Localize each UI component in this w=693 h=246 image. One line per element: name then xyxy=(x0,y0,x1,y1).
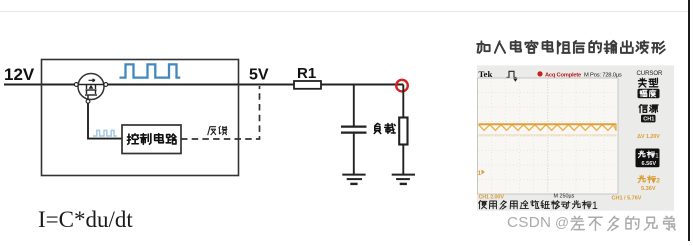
svg-text:CH1: CH1 xyxy=(643,117,654,123)
PWM square waveform (blue) xyxy=(120,64,181,77)
svg-text:M 250µs: M 250µs xyxy=(554,194,575,200)
Q1 source terminal node xyxy=(104,83,108,87)
ground (load) xyxy=(392,175,415,184)
menu item: source xyxy=(639,104,658,112)
oscilloscope screenshot background xyxy=(477,65,674,210)
svg-text:Acq Complete: Acq Complete xyxy=(545,72,582,78)
svg-text:1: 1 xyxy=(478,170,482,177)
scope brand Tek xyxy=(479,69,493,79)
CURSOR menu title xyxy=(637,70,664,77)
cursor1 button xyxy=(636,149,660,168)
Q1 drain terminal node xyxy=(74,83,78,87)
svg-text:ΔV 1.20V: ΔV 1.20V xyxy=(637,134,660,140)
wire C1 to ground xyxy=(353,134,355,174)
acq complete text xyxy=(545,72,582,78)
label 12V input xyxy=(4,65,35,84)
label feedback (fankui) xyxy=(208,126,227,134)
acq red dot xyxy=(537,71,542,76)
capacitor C1 xyxy=(341,127,367,133)
delta V readout xyxy=(637,134,660,140)
svg-text:5.36V: 5.36V xyxy=(641,186,656,192)
CH1 scale readout xyxy=(479,195,505,201)
CSDN watermark xyxy=(507,214,675,231)
wire probe to load xyxy=(402,85,404,118)
svg-text:@: @ xyxy=(555,215,569,230)
channel 1 marker xyxy=(478,170,485,178)
timebase readout xyxy=(554,194,575,200)
trigger position marker xyxy=(513,79,517,82)
wire load to ground xyxy=(402,145,404,175)
svg-text:M Pos: 728.0µs: M Pos: 728.0µs xyxy=(584,72,622,78)
top hairline xyxy=(0,11,688,13)
load resistor body xyxy=(399,118,407,145)
cursor2 label xyxy=(638,175,660,192)
menu button: CH1 xyxy=(641,115,656,123)
output ripple waveform (orange) xyxy=(479,124,617,135)
resistor R1 label xyxy=(297,65,316,82)
svg-text:2: 2 xyxy=(656,178,660,185)
svg-text:Tek: Tek xyxy=(479,69,493,79)
wire Q1 gate to control circuit xyxy=(88,103,122,138)
formula I=C*du/dt xyxy=(38,207,133,232)
trigger readout xyxy=(612,196,642,202)
wire capacitor branch xyxy=(353,85,355,126)
svg-text:CURSOR: CURSOR xyxy=(637,70,664,77)
resistor R1 body xyxy=(294,81,321,89)
ground (capacitor) xyxy=(342,175,365,184)
wire main 12V rail xyxy=(4,84,403,86)
feedback dashed wire xyxy=(181,86,260,139)
svg-text:I=C*du/dt: I=C*du/dt xyxy=(38,207,133,232)
transistor Q1 (MOSFET switch) xyxy=(78,74,104,100)
output probe node (red circle) xyxy=(396,80,408,92)
svg-text:1: 1 xyxy=(592,200,598,212)
graticule screen xyxy=(478,78,619,194)
control circuit block U1 xyxy=(122,125,181,154)
svg-text:12V: 12V xyxy=(4,65,35,84)
gate drive pulses (light blue) xyxy=(93,130,117,136)
svg-text:1: 1 xyxy=(655,152,659,159)
svg-text:5V: 5V xyxy=(249,67,269,84)
svg-text:CH1 2.00V: CH1 2.00V xyxy=(479,195,505,201)
svg-text:CH1 / 5.76V: CH1 / 5.76V xyxy=(612,196,642,202)
converter module box xyxy=(42,60,239,176)
trigger pulse icon xyxy=(507,71,517,77)
label 5V output xyxy=(249,67,269,84)
Q1 gate terminal node xyxy=(86,99,90,103)
scope hint message xyxy=(479,200,598,212)
label load (fuzai) xyxy=(374,123,395,133)
menu item: type xyxy=(638,78,657,87)
svg-text:CSDN: CSDN xyxy=(507,214,551,231)
svg-text:R1: R1 xyxy=(297,65,316,82)
menu button: amplitude xyxy=(638,89,660,98)
svg-text:6.56V: 6.56V xyxy=(642,161,657,167)
M Pos readout xyxy=(584,72,622,78)
right frame line xyxy=(688,0,690,241)
title: output waveform after adding C and R xyxy=(477,41,665,54)
